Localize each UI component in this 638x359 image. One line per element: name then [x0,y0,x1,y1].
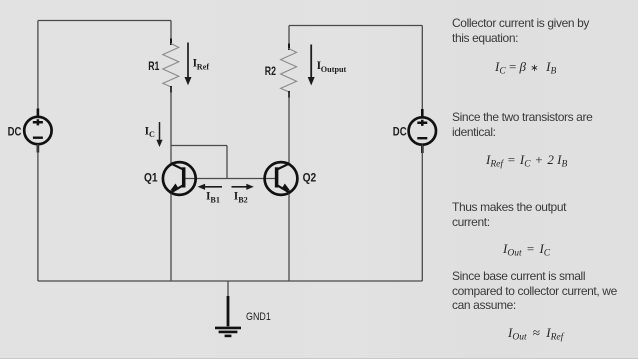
arrow IB1 [198,184,222,190]
arrow IC [156,122,162,147]
wire bottom rail [38,280,422,282]
equation 2: IRef = IC + 2 IB [486,152,567,168]
pin nub V1 top [37,109,40,118]
arrow IRef [185,43,192,86]
wire right rail lower [421,145,423,282]
svg-text:R1: R1 [148,61,160,73]
resistor R2 [281,49,297,92]
svg-text:Ref: Ref [197,62,210,71]
wire Q1 emitter down [170,194,172,282]
wire collector-base link horizontal [171,145,227,147]
text paragraph 2 [452,110,592,139]
text paragraph 4 [452,269,617,313]
pin nub R2 bottom [288,91,290,98]
text paragraph 3 [452,200,566,229]
DC source V2 [409,117,436,144]
pin nub R1 top [170,39,172,46]
svg-text:GND1: GND1 [246,311,271,323]
svg-text:R2: R2 [265,66,276,78]
wire ground stem [227,281,229,297]
svg-text:Q2: Q2 [303,172,317,184]
wire top-right rail [289,25,422,27]
wire right rail upper [421,26,423,118]
transistor Q2 [265,162,298,195]
svg-text:B2: B2 [238,196,248,205]
pin nub R2 top [288,44,290,51]
label IOutput [317,60,347,74]
equation 1: IC = beta * IB [495,59,556,75]
wire R1 bottom lead [170,87,172,165]
equation 3: IOut = IC [503,241,550,257]
wire R2 bottom lead [288,92,290,165]
pin nub R1 bottom [170,86,172,93]
wire R2 top lead [288,26,290,50]
pin nub V2 bottom [421,145,424,154]
svg-text:DC: DC [393,127,407,139]
wire collector-base link vertical [226,146,228,179]
wire base rail Q1-Q2 [183,178,278,180]
label IB1 [206,191,220,205]
label IB2 [234,191,248,205]
arrow IOutput [308,45,315,86]
wire left rail lower [37,144,39,281]
transistor Q1 [163,162,196,195]
label IC [145,125,155,139]
equation 4: IOut approx IRef [508,325,563,341]
wire Q2 emitter down [288,194,290,282]
svg-text:Q1: Q1 [144,172,158,184]
pin nub V2 top [421,109,424,118]
label IRef [193,57,210,71]
DC source V1 [24,117,51,144]
wire top-left rail [38,20,171,22]
text paragraph 1 [452,16,589,45]
wire R1 top lead [170,21,172,45]
arrow IB2 [232,184,254,190]
svg-text:DC: DC [8,127,22,139]
ground GND1 [215,296,241,336]
svg-text:B1: B1 [210,196,220,205]
resistor R1 [163,44,179,87]
svg-text:Output: Output [321,65,347,74]
pin nub V1 bottom [37,144,40,153]
svg-text:C: C [149,130,155,139]
wire left rail upper [37,21,39,118]
